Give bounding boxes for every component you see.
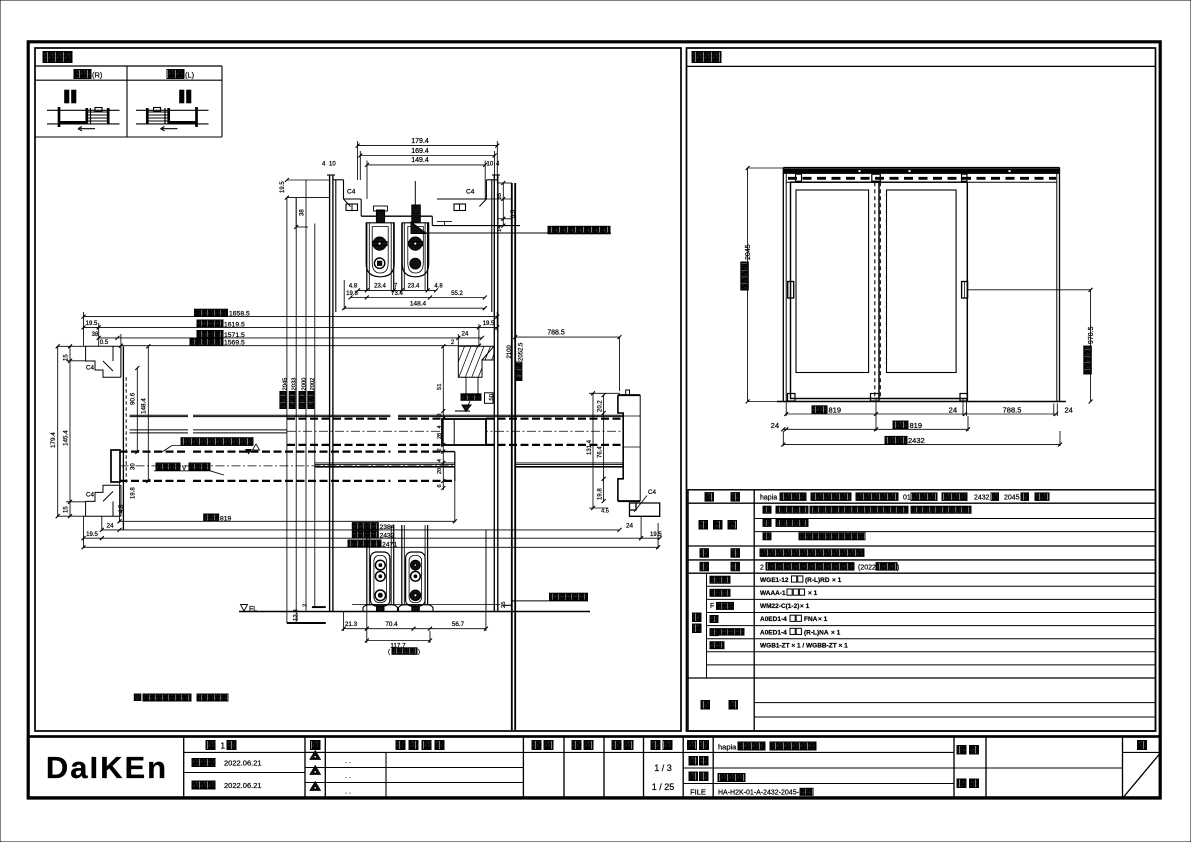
svg-text:(: ( — [388, 650, 390, 656]
roller wheels right — [409, 237, 422, 250]
door leaf 1 outline — [791, 182, 880, 398]
svg-text:2022.06.21: 2022.06.21 — [224, 781, 262, 790]
small gap tick 2 — [437, 221, 452, 223]
height dim line 2033 — [295, 198, 297, 623]
bottom roller housing right — [406, 552, 426, 606]
svg-text:788.5: 788.5 — [547, 329, 565, 336]
title block frame — [28, 737, 1160, 799]
svg-text:WM22-C(1-2): WM22-C(1-2) — [760, 603, 799, 610]
svg-text:24: 24 — [949, 405, 957, 414]
svg-text:2045: 2045 — [1004, 495, 1020, 502]
front door right end — [454, 452, 456, 481]
row label rail — [700, 562, 709, 571]
leader: decorative face mark note — [181, 438, 253, 446]
top dim chain line1 1658.5 — [84, 316, 498, 318]
row label biko — [701, 701, 710, 710]
svg-text:0.5: 0.5 — [511, 210, 517, 218]
svg-text:× 1: × 1 — [800, 603, 810, 610]
han col header — [311, 741, 321, 750]
svg-text:C4: C4 — [466, 189, 475, 196]
roller wheels left — [373, 237, 386, 250]
right side small dims 35 0.5 14 — [502, 183, 504, 226]
svg-text:50: 50 — [489, 394, 495, 400]
dim 788.5 to right jamb — [515, 336, 619, 338]
kakunin header — [572, 741, 581, 750]
svg-text:): ) — [897, 564, 899, 571]
label tsurido rail note — [548, 226, 610, 234]
door pocket edge line detail C — [485, 530, 487, 612]
v-cap lines near meeting end — [315, 462, 455, 464]
top dim chain line3 1571.5 — [99, 337, 482, 339]
spec handle row — [760, 549, 864, 557]
panel title dammenzu (section view) — [43, 52, 72, 63]
floor line — [777, 401, 1066, 403]
kenmei label — [957, 746, 966, 755]
kaitei-bi 2022.06.21 — [192, 781, 215, 789]
svg-text:1569.5: 1569.5 — [224, 340, 245, 347]
svg-text:× 1: × 1 — [808, 590, 818, 597]
svg-text:148.4: 148.4 — [410, 300, 427, 307]
FL marker — [241, 605, 248, 612]
door frame outline — [782, 168, 784, 402]
svg-text:3: 3 — [437, 413, 443, 416]
dim frame inner height 2045 — [747, 168, 749, 402]
svg-text:1 / 3: 1 / 3 — [654, 763, 672, 773]
svg-text:14: 14 — [497, 225, 503, 232]
detail A bottom dims 4.8 23.4 7 23.4 4.8 — [358, 289, 436, 291]
svg-text:. .: . . — [345, 758, 351, 765]
extension line right jamb — [619, 337, 621, 391]
row label yoshiki — [705, 493, 714, 502]
svg-text:(L): (L) — [185, 71, 195, 80]
label uchinori-haba — [197, 320, 223, 327]
door leaf 2 outline — [874, 181, 967, 183]
bottom roller housing left — [370, 552, 390, 606]
svg-text:): ) — [418, 650, 420, 656]
svg-text:2002: 2002 — [310, 378, 316, 391]
svg-text:1619.5: 1619.5 — [224, 321, 245, 328]
svg-text:4: 4 — [437, 459, 443, 462]
svg-text:56.7: 56.7 — [452, 621, 465, 628]
svg-text:01: 01 — [903, 495, 911, 502]
label kaiko-wakuhaba — [195, 309, 228, 316]
svg-text:4.5: 4.5 — [601, 509, 609, 515]
svg-text:2045: 2045 — [745, 244, 752, 260]
svg-text:A0ED1-4: A0ED1-4 — [760, 629, 787, 636]
svg-text:× 1: × 1 — [832, 577, 842, 584]
recessed pull door2 — [962, 282, 968, 299]
far-left vertical dims 179.4 / 15 145.4 15 — [57, 346, 59, 516]
hinban label — [689, 757, 698, 766]
head jamb left — [333, 179, 344, 181]
bottom rollers left — [375, 560, 385, 570]
svg-text:970.5: 970.5 — [1088, 326, 1095, 344]
svg-text:(2022: (2022 — [858, 564, 876, 571]
svg-text:19.5: 19.5 — [86, 532, 98, 538]
svg-text:35: 35 — [497, 193, 503, 199]
svg-text:2432: 2432 — [974, 495, 990, 502]
svg-text:819: 819 — [829, 406, 842, 415]
svg-text:6: 6 — [437, 484, 443, 487]
rear door thin lines left part — [130, 429, 188, 431]
svg-text:179.4: 179.4 — [50, 432, 57, 448]
height dim line 2000 — [305, 180, 307, 612]
kaitei rireki header — [396, 741, 405, 750]
bottom dim toahaba 819 — [120, 520, 455, 522]
left jamb profile bottom — [86, 485, 121, 516]
svg-text:. .: . . — [345, 789, 351, 796]
shukushaku header — [651, 741, 660, 750]
hanger bolt right — [412, 205, 421, 223]
rear door centerline — [287, 430, 621, 432]
svg-text:A0ED1-4: A0ED1-4 — [760, 616, 787, 623]
svg-text:× 1: × 1 — [831, 629, 841, 636]
dim 38 below — [295, 198, 297, 227]
dim line door widths (top chain) — [786, 413, 1057, 415]
front door thick dashed top — [120, 451, 189, 453]
door1 edge lines below hangers — [366, 223, 368, 290]
svg-text:. .: . . — [345, 773, 351, 780]
svg-text:819: 819 — [220, 516, 232, 523]
dim line 24 / 819 (second chain) — [783, 428, 968, 430]
left jamb profile top — [86, 346, 121, 377]
svg-text:24: 24 — [106, 522, 114, 529]
roller housing left — [366, 223, 394, 277]
label wakugai-haba — [885, 436, 907, 444]
svg-text:WGE1-12: WGE1-12 — [760, 577, 789, 584]
svg-text:(R-L)NA: (R-L)NA — [804, 629, 829, 636]
mini section diagram L — [136, 90, 209, 127]
page label — [1138, 741, 1147, 750]
svg-text:(R-L)RD: (R-L)RD — [805, 577, 830, 584]
mini section diagram R — [47, 90, 120, 131]
svg-text:10: 10 — [487, 162, 494, 168]
row label totte — [700, 549, 709, 558]
bottom dim 2471 — [84, 546, 659, 548]
right panel border — [687, 48, 1156, 731]
height dim line 2002 — [314, 224, 316, 608]
svg-text:× 1: × 1 — [818, 616, 828, 623]
door leaf 1 panel inset — [796, 190, 869, 373]
svg-text:1658.5: 1658.5 — [229, 311, 250, 318]
hanger bolt centerline — [414, 181, 416, 208]
right jamb profile (tosaki) — [618, 395, 623, 501]
svg-text:WGB1-ZT × 1 / WGBB-ZT × 1: WGB1-ZT × 1 / WGBB-ZT × 1 — [760, 642, 848, 649]
seitei-bi 2022.06.21 — [192, 759, 215, 767]
recessed pull door1 — [788, 282, 794, 299]
rev col: dai 1 han — [206, 741, 215, 750]
svg-text:21.3: 21.3 — [345, 621, 358, 628]
spec finish row 3 — [763, 533, 771, 540]
wall edge at jamb — [122, 346, 124, 530]
spec table block lines — [688, 502, 1156, 504]
revision triangles — [310, 751, 321, 760]
svg-text:1 / 25: 1 / 25 — [652, 782, 675, 792]
jamb inner face lines — [120, 346, 122, 377]
spec finish row 2 — [763, 519, 771, 526]
hanger brackets — [872, 174, 881, 181]
section type table — [35, 79, 222, 81]
svg-text:24: 24 — [626, 522, 634, 529]
svg-text:24: 24 — [462, 332, 469, 338]
svg-text:28: 28 — [437, 433, 443, 439]
detail A bottom dims 19.8 73.4 55.2 — [351, 297, 485, 299]
panel title shomenzu (front view) — [692, 52, 721, 63]
tanto label — [957, 779, 966, 788]
meeting overlap box — [442, 419, 486, 445]
hanger bolt left — [376, 210, 384, 223]
height dim line 2045 — [286, 198, 288, 623]
svg-text:DaIKEn: DaIKEn — [46, 750, 168, 785]
door bottom guide feet — [788, 394, 796, 402]
svg-text:2100: 2100 — [507, 344, 513, 358]
top rail dark band — [784, 169, 1059, 174]
svg-text:24: 24 — [1065, 405, 1073, 414]
svg-text:FL: FL — [249, 606, 257, 613]
bottom dim 2432 — [84, 537, 660, 539]
svg-text:WAAA-1: WAAA-1 — [760, 590, 786, 597]
svg-text:19.5: 19.5 — [86, 321, 98, 327]
svg-text:19.8: 19.8 — [346, 291, 358, 297]
arrow cell L — [161, 128, 178, 130]
top dim chain line2 19.5/1619.5/19.5 — [84, 326, 498, 328]
roller housing right — [402, 223, 429, 277]
svg-text:2: 2 — [437, 448, 443, 451]
wall section lines left — [329, 175, 331, 612]
hanger rail bracket — [360, 199, 362, 216]
svg-text:788.5: 788.5 — [1003, 405, 1022, 414]
zumei label — [689, 772, 698, 781]
svg-text:51: 51 — [437, 384, 443, 390]
svg-text:19.5: 19.5 — [280, 181, 286, 193]
svg-text:(R): (R) — [92, 71, 103, 80]
svg-text:2: 2 — [303, 604, 309, 607]
svg-text:23.4: 23.4 — [408, 284, 420, 290]
bottom ext verticals — [83, 516, 85, 548]
svg-text:C4: C4 — [648, 489, 656, 496]
svg-text:hapia: hapia — [760, 495, 777, 502]
svg-text:2033: 2033 — [292, 378, 298, 391]
chain dim line at meeting stile — [442, 346, 444, 490]
svg-text:38: 38 — [92, 332, 99, 338]
svg-text:19.5: 19.5 — [483, 321, 495, 327]
dim 149.4 — [367, 164, 485, 166]
sub labels parts — [710, 576, 730, 583]
leader: hikite side V cap — [156, 463, 180, 470]
svg-text:C4: C4 — [86, 492, 94, 499]
svg-text:hapia: hapia — [718, 743, 737, 752]
door2 edge lines below hangers — [401, 223, 403, 290]
stile hatch top tick — [455, 410, 470, 412]
dim 179.4 — [358, 145, 498, 147]
rail lines in opening (right) — [515, 462, 622, 464]
stile lower step — [466, 377, 478, 395]
svg-text:55.2: 55.2 — [451, 291, 463, 297]
front door centerline — [120, 465, 455, 467]
dim 19.5 top-left of head section — [287, 179, 330, 181]
svg-text:FNA: FNA — [804, 616, 818, 623]
svg-text:15: 15 — [63, 506, 69, 513]
svg-text:90.6: 90.6 — [130, 392, 137, 405]
svg-text:169.4: 169.4 — [411, 148, 429, 155]
title block row lines — [184, 751, 326, 753]
svg-text:148.4: 148.4 — [141, 398, 148, 414]
row label hinban (vertical) — [693, 613, 702, 622]
label yuko-kaiko — [190, 338, 223, 345]
svg-text:2384: 2384 — [380, 524, 395, 531]
mid vertical dims 90.6 148.4 — [136, 368, 138, 452]
hidden hanger rail dashed — [788, 177, 1056, 180]
svg-text:4: 4 — [437, 425, 443, 428]
svg-text:C4: C4 — [347, 189, 356, 196]
page diagonal — [1124, 754, 1160, 797]
svg-text:38: 38 — [300, 209, 306, 216]
mohair label — [461, 394, 481, 401]
label yuko-haba — [197, 331, 223, 338]
right jamb bottom foot — [630, 503, 660, 516]
bottom dims 21.3 70.4 56.7 — [344, 628, 486, 630]
svg-text:149.4: 149.4 — [411, 157, 429, 164]
svg-text:FILE: FILE — [690, 788, 706, 797]
svg-text:76.4: 76.4 — [597, 446, 603, 458]
label tohaba 2 — [893, 421, 908, 429]
svg-text:HA-H2K-01-A-2432-2045-: HA-H2K-01-A-2432-2045- — [718, 790, 800, 797]
svg-text:12.3: 12.3 — [294, 609, 300, 621]
rear door thick dashed top — [287, 418, 390, 420]
right jamb dims — [592, 393, 594, 508]
front door left end cap — [111, 450, 120, 482]
dim 50 boxed — [485, 393, 494, 404]
spec table sub lines — [754, 518, 1155, 520]
svg-text:145.4: 145.4 — [62, 430, 69, 446]
svg-text:30: 30 — [131, 463, 137, 470]
left ext verticals top chain — [83, 312, 85, 346]
svg-text:24: 24 — [771, 421, 779, 430]
svg-text:20.2: 20.2 — [597, 400, 603, 412]
svg-text:2052.5: 2052.5 — [518, 342, 524, 361]
spec table column lines — [753, 490, 755, 731]
front door thick dashed bottom — [120, 480, 189, 482]
title block column lines — [183, 737, 185, 799]
svg-text:15: 15 — [63, 354, 69, 361]
door2 edge lines bottom — [401, 525, 403, 605]
svg-text:179.4: 179.4 — [411, 138, 429, 145]
wall cut lines (tall pair) — [511, 183, 513, 730]
svg-text:20: 20 — [437, 468, 443, 474]
svg-text:819: 819 — [910, 421, 923, 430]
svg-text:19.8: 19.8 — [131, 487, 137, 499]
spec finish row 1 — [763, 506, 771, 513]
label flat rail — [550, 593, 588, 600]
dim 169.4 — [360, 155, 494, 157]
door1 edge lines bottom — [366, 525, 368, 605]
svg-text:131.4: 131.4 — [587, 439, 593, 455]
top dim chain line4 1569.5 — [121, 345, 479, 347]
rear door thick dashed bottom — [287, 444, 390, 446]
leader line hanging rail — [420, 232, 611, 234]
dim pull height 970.5 — [1090, 290, 1092, 402]
dim 117.7 yuko kaiko — [367, 640, 430, 642]
svg-text:19.5: 19.5 — [650, 532, 662, 538]
header cell right-sliding (R) — [74, 70, 91, 79]
row label shiage — [699, 521, 708, 530]
svg-text:2045: 2045 — [282, 378, 288, 391]
svg-text:2432: 2432 — [380, 532, 395, 539]
svg-text:4.8: 4.8 — [349, 284, 358, 290]
svg-text:2: 2 — [760, 564, 764, 571]
door leaf 2 panel inset — [887, 190, 957, 373]
svg-text:4.8: 4.8 — [434, 284, 443, 290]
meisho label — [688, 741, 697, 750]
left wall foot — [287, 622, 326, 624]
svg-text:19.8: 19.8 — [597, 488, 603, 500]
door stop pocket lines — [623, 415, 640, 417]
svg-text:1571.5: 1571.5 — [224, 332, 245, 339]
svg-text:73.4: 73.4 — [391, 291, 403, 297]
detail A bottom dim 148.4 — [344, 307, 485, 309]
svg-text:2471: 2471 — [382, 541, 397, 548]
note: case of 2432 width — [134, 694, 141, 701]
flat rail leader — [512, 600, 588, 602]
hidden meeting stile dashed lines — [874, 182, 876, 398]
svg-text:C4: C4 — [86, 365, 94, 372]
left panel border — [35, 48, 681, 731]
flat rail profile right — [399, 605, 434, 612]
svg-text:F: F — [710, 603, 714, 610]
svg-text:2022.06.21: 2022.06.21 — [224, 759, 262, 768]
svg-text:23.4: 23.4 — [374, 284, 386, 290]
spec table frame — [688, 490, 1156, 731]
svg-text:1: 1 — [221, 742, 226, 751]
svg-text:2000: 2000 — [301, 378, 307, 391]
shonin header — [532, 741, 541, 750]
dim line frame outer width 2432 — [783, 444, 1060, 446]
zumei content sanmenzu — [718, 774, 745, 782]
bottom rollers right — [411, 560, 421, 570]
svg-text:10: 10 — [329, 162, 336, 168]
floor line — [239, 611, 590, 613]
wall section lines right — [493, 175, 495, 612]
svg-text:2432: 2432 — [908, 436, 925, 445]
header cell left-sliding (L) — [167, 70, 184, 79]
label tohaba — [812, 406, 827, 414]
head jamb right — [486, 179, 497, 181]
top track lines — [130, 414, 188, 416]
bottom dim 2384 — [102, 529, 620, 531]
sakusei header — [612, 741, 621, 750]
rail top line — [352, 604, 500, 606]
svg-text:70.4: 70.4 — [385, 621, 398, 628]
flat rail profile left — [363, 605, 398, 612]
svg-text:0.5: 0.5 — [100, 340, 109, 346]
